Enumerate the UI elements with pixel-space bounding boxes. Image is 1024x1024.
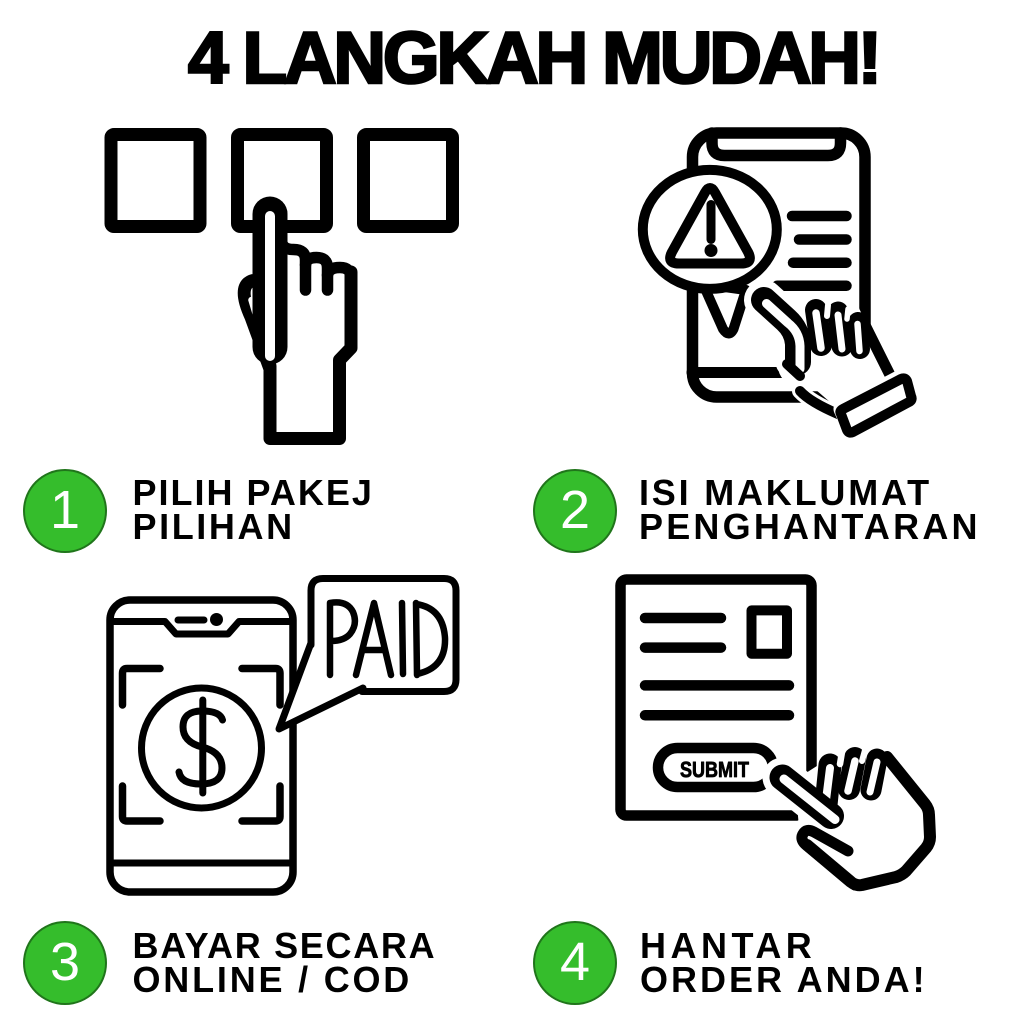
photo box [752, 610, 788, 653]
scan bracket BL [123, 786, 161, 821]
PAID bubble [311, 579, 456, 692]
step 3 badge [23, 921, 107, 1005]
hand: palm right edge [807, 757, 930, 885]
bottom bezel line [110, 860, 293, 867]
top bezel line with notch [110, 622, 293, 635]
PAID bubble tail [279, 643, 363, 729]
alert triangle [670, 188, 750, 264]
hand: knuckle notch 23 [862, 750, 865, 761]
text line 3 [793, 257, 847, 268]
hand: knuckle tube 3 [858, 322, 860, 349]
hand: knuckle notch 23 [847, 309, 848, 319]
dollar circle [142, 688, 262, 808]
document [621, 580, 812, 816]
hand: index finger [764, 300, 798, 362]
hand: palm fill [783, 306, 895, 416]
doc line 3 [645, 680, 789, 691]
PAID: A [356, 603, 391, 675]
text line 2 [799, 234, 847, 245]
bubble tail [703, 284, 746, 334]
scan bracket TR [242, 669, 280, 706]
tap hand: thumb sliver [252, 300, 258, 320]
hand: thumb halo [787, 364, 800, 376]
PAID: D [416, 603, 445, 675]
dollar bar [199, 700, 206, 793]
hand: knuckle tube 1 [826, 765, 830, 805]
hand: palm bottom-left edge [800, 391, 838, 414]
doc line 4 [645, 710, 789, 721]
hand: thumb + bottom edge halo [802, 830, 857, 886]
square 2 [238, 135, 327, 227]
tap hand: palm fill [247, 278, 352, 436]
text line 1 [792, 211, 847, 222]
hand: knuckle tube 2 [849, 758, 855, 789]
hand: knuckle tube 3 [871, 759, 877, 790]
tap hand: left edge and thumb [244, 281, 270, 378]
hand: finger halo [764, 300, 798, 366]
hand: knuckle core 1 [816, 313, 821, 348]
exclamation dot [705, 244, 718, 257]
speaker [178, 617, 204, 624]
hand: index finger [783, 778, 832, 817]
doc line 2 [645, 642, 721, 653]
submit button [658, 748, 773, 787]
hand: knuckle core 3 [858, 324, 860, 351]
dollar S [179, 711, 223, 784]
ICON 4 : submit order (document + SUBMIT + hand) [621, 580, 934, 889]
phone bottom bezel line [692, 367, 862, 378]
hand: palm fill [795, 748, 933, 888]
hand: knuckle tube 1 [816, 310, 821, 345]
phone body [693, 133, 866, 397]
square 1 [111, 135, 200, 227]
hand: knuckle core 2 [838, 315, 842, 349]
hand: knuckle notch 12 [827, 305, 828, 316]
ICON 1 : choose package (3 squares + tap hand) [111, 135, 453, 439]
text line 4 [777, 281, 847, 292]
step 4 label [640, 929, 928, 996]
speech bubble [643, 170, 777, 289]
hand: cuff halo [843, 379, 909, 431]
scan bracket TL [123, 669, 161, 706]
hand: knuckle core 1 [825, 768, 830, 808]
tap hand: index finger [253, 214, 288, 347]
phone body [110, 600, 293, 892]
step 4 badge [533, 921, 617, 1005]
hand: finger halo [783, 778, 832, 817]
tap hand: knuckles [282, 212, 306, 290]
scan bracket BR [242, 786, 280, 821]
hand: knuckle tube 2 [838, 312, 842, 346]
PAID: I [402, 603, 403, 674]
hand: cuff [840, 378, 911, 432]
hand: knuckle core 3 [870, 762, 877, 792]
step 2 badge [533, 469, 617, 553]
phone notch [712, 133, 841, 156]
hand: thumb [787, 364, 800, 376]
hand: thumb + bottom-left U [802, 830, 855, 885]
PAID: P [330, 602, 355, 675]
camera dot [210, 613, 223, 626]
square 3 [364, 135, 453, 227]
tap hand: wrist and right edge [270, 272, 351, 439]
ICON 2 : fill delivery info (phone + alert bubble + hand) [643, 133, 912, 433]
step 2 label [639, 476, 981, 543]
title [188, 17, 879, 100]
hand: knuckle core 2 [848, 761, 855, 791]
step 3 label [133, 929, 437, 996]
hand: palm bottom edge halo [800, 391, 838, 414]
doc line 1 [645, 613, 721, 624]
exclamation bar [707, 205, 716, 240]
svg-text:SUBMIT: SUBMIT [680, 757, 749, 782]
step 1 badge [23, 469, 107, 553]
step 1 label [133, 476, 374, 543]
hand: knuckle notch 12 [840, 752, 842, 764]
ICON 3 : pay online (phone + $ + PAID bubble) [110, 579, 456, 893]
hand: knuckle notch f [798, 297, 800, 316]
hand: palm right edge [863, 321, 891, 377]
